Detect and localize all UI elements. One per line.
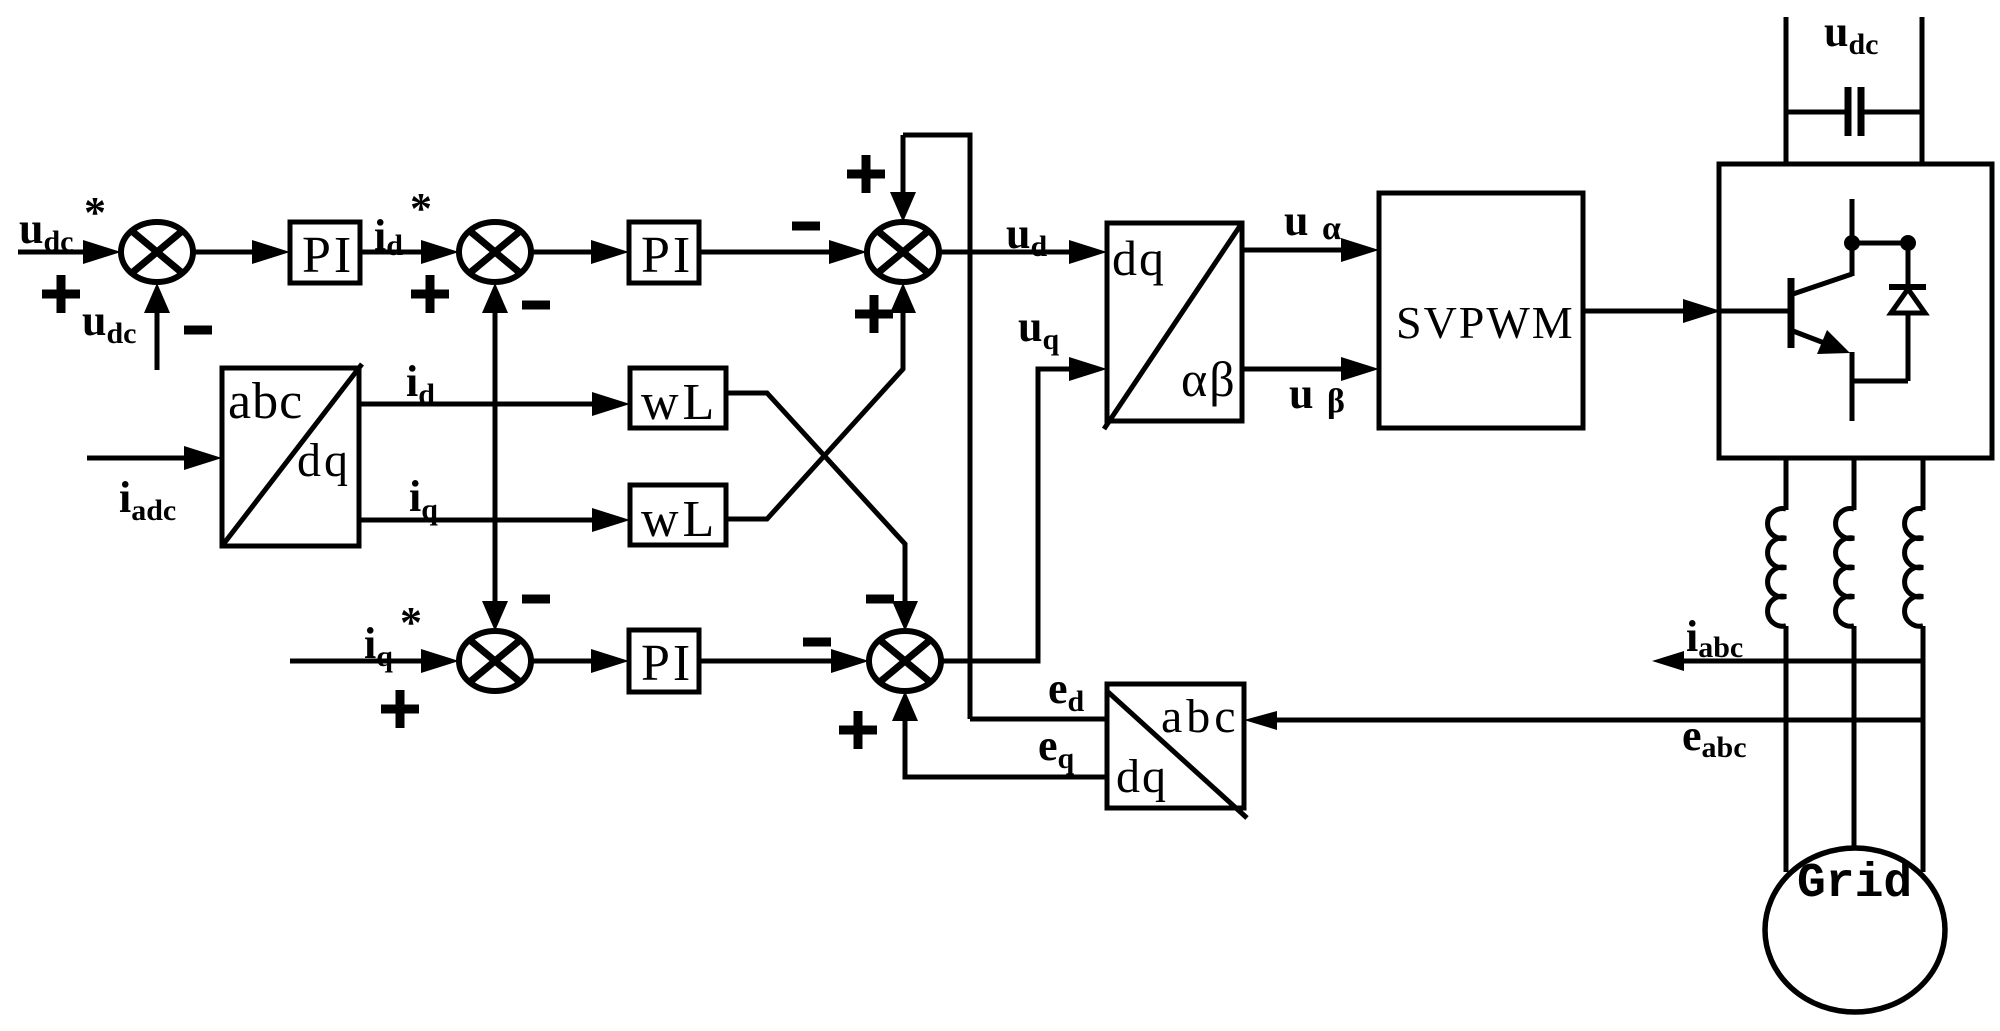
svg-text:dq: dq [1116,750,1168,803]
minus sign at S2 bottom input [522,301,550,310]
arrow into wL1 [592,392,630,416]
block converter [1719,164,1992,458]
wire S2 to PI2 [531,250,594,255]
svg-text:u: u [1284,196,1308,245]
arrow into SVPWM (u_alpha) [1341,238,1379,262]
arrow into abc/dq [184,446,222,470]
svg-text:*: * [84,188,106,237]
wire PI1 to S2 [360,250,424,255]
svg-text:*: * [400,598,422,647]
wire SVPWM to converter [1583,309,1684,314]
summing junction S2 [459,222,531,282]
wire i_adc input [87,456,189,461]
block dq/alphabeta [1107,223,1242,421]
svg-text:*: * [410,184,432,233]
arrow up into S1 bottom [144,283,170,313]
wire u_beta [1242,367,1344,372]
circle Grid [1765,848,1945,1012]
wire dc bus right [1920,17,1925,164]
wire e_q to S4 bottom [905,720,1107,777]
summing junction S4 [869,631,941,691]
arrow into converter [1683,299,1721,323]
svg-text:SVPWM: SVPWM [1396,297,1575,348]
arrow into summing junction S1 [83,240,121,264]
block PI3 [629,630,699,692]
capacitor C [1786,110,1845,115]
svg-text:β: β [1327,383,1345,420]
svg-text:Grid: Grid [1797,857,1912,911]
arrow into S3 [829,240,867,264]
wire u_dc feedback stub [155,311,160,370]
svg-text:abc: abc [228,373,303,430]
block abc/dq right [1107,684,1244,808]
wire vertical from S2 down to S5 [493,311,498,603]
minus sign at S4 top input [866,595,894,604]
wire phase c bottom [1921,626,1926,872]
wire u_d from S3 to dq-ab block [939,250,1072,255]
inductor Lc [1905,509,1923,627]
arrow into SVPWM (u_beta) [1341,357,1379,381]
block PI1 [290,222,360,283]
wire S1 to PI1 [193,250,255,255]
arrow down into S3 top [890,192,916,222]
wire between dots [1852,241,1908,246]
svg-text:αβ: αβ [1181,351,1237,407]
arrow down into S4 top [892,601,918,631]
wire phase a bottom [1784,626,1789,872]
wire S5 to PI3 [531,659,594,664]
wire phase b top [1852,458,1857,510]
summing junction S5 [459,631,531,691]
svg-text:dq: dq [1112,230,1166,286]
arrow into PI3 [591,649,629,673]
node dot collector [1844,235,1860,251]
svg-text:wL: wL [641,374,718,431]
arrow into dq-ab (u_d) [1069,240,1107,264]
wire S3 top stub [901,135,906,194]
arrow down into S5 top [482,601,508,631]
wire dc bus left [1784,17,1789,164]
wire phase a top [1784,458,1789,510]
plus sign at S3 bottom input [855,295,893,333]
wire i_q output [359,518,595,523]
arrow into dq-ab (u_q) [1069,357,1107,381]
arrow into S4 [831,649,869,673]
wire e_d output [970,717,1107,722]
block abc/dq left [222,368,359,546]
wire wL2 output to S3 bottom [726,312,903,519]
arrow into abc/dq right block [1244,711,1277,730]
svg-text:u: u [1289,369,1313,418]
wire feedback top rectangle [903,135,970,719]
svg-text:dq: dq [297,434,351,487]
wire e_abc measurement [1272,718,1923,723]
arrow into PI2 [591,240,629,264]
block wL2 [630,485,726,545]
block wL1 [630,368,726,428]
plus sign at S2 left input [411,275,449,313]
wire PI2 to S3 [699,250,832,255]
transistor IGBT inside converter [1721,309,1788,314]
wire i_q* input [290,659,424,664]
arrow into PI1 [252,240,290,264]
wire u_q from S4 to dq-ab block [941,369,1072,661]
minus sign at S5 top input [522,595,550,604]
wire i_abc measurement [1680,659,1923,664]
wire u_dc* input [18,250,86,255]
minus sign at S4 left input [803,638,831,647]
minus sign at S1 bottom input [184,326,212,335]
svg-text:PI: PI [641,227,693,284]
inductor Lb [1836,509,1854,627]
svg-text:α: α [1322,210,1341,247]
arrow into wL2 [592,508,630,532]
plus sign at S3 top input [847,155,885,193]
wire i_d output [359,402,595,407]
diode D [1906,243,1911,287]
plus sign at S4 bottom input [839,711,877,749]
plus sign at S5 left input [381,690,419,728]
plus sign at S1 left input [42,275,80,313]
arrow into S2 [421,240,459,264]
svg-text:abc: abc [1161,690,1240,743]
arrow up into S2 bottom [482,283,508,313]
arrow up into S4 bottom [892,691,918,721]
node dot diode [1900,235,1916,251]
summing junction S3 [867,222,939,282]
wire phase b bottom [1852,626,1857,849]
svg-text:PI: PI [302,227,354,284]
wire wL1 output to S4 top [726,393,905,603]
summing junction S1 [121,222,193,282]
wire phase c top [1921,458,1926,510]
arrow i_abc left [1652,651,1684,671]
arrow up into S3 bottom [890,283,916,313]
svg-text:PI: PI [641,635,693,692]
block SVPWM [1379,193,1583,428]
wire PI3 to S4 [699,659,832,664]
block PI2 [629,222,699,283]
wire u_alpha [1242,248,1344,253]
arrow into S5 [421,649,459,673]
minus sign at S3 left input [792,222,820,231]
svg-text:wL: wL [641,491,718,548]
inductor La [1768,509,1786,627]
